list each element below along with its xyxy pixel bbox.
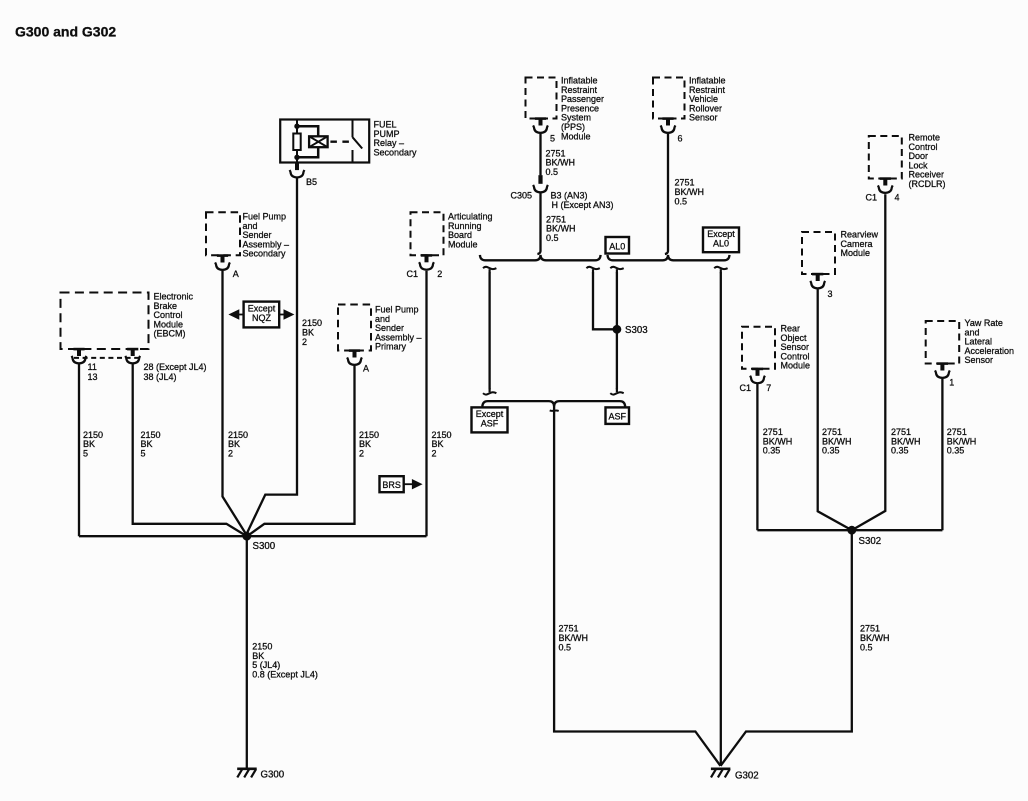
pin A terminal <box>349 349 360 352</box>
wire 2751 BK/WH 0.35 RCDLR to S302 <box>853 194 886 530</box>
wire 2751 BK/WH 0.5 lower <box>537 193 540 254</box>
svg-text:(RCDLR): (RCDLR) <box>909 179 946 189</box>
svg-text:5: 5 <box>550 134 555 144</box>
wire 2150 BK 2 relay to S300 <box>247 178 297 533</box>
svg-text:Module: Module <box>561 131 591 141</box>
svg-text:BK/WH: BK/WH <box>559 633 589 643</box>
svg-text:Module: Module <box>781 361 811 371</box>
pin C1-7 terminal <box>752 368 763 371</box>
relay resistor <box>296 120 298 134</box>
svg-text:0.5: 0.5 <box>860 643 873 653</box>
svg-text:38 (JL4): 38 (JL4) <box>144 372 177 382</box>
svg-text:2: 2 <box>432 448 437 458</box>
module Rear Object Sensor Control Module <box>742 327 775 369</box>
module Remote Control Door Lock Receiver RCDLR <box>869 136 902 179</box>
svg-text:Secondary: Secondary <box>374 147 418 157</box>
wire 2751 BK/WH 0.35 rear object sensor to S302 <box>756 384 758 530</box>
arrow right of Except NQZ <box>279 314 285 316</box>
inline connector C305 <box>538 175 542 184</box>
pin 6 terminal <box>662 117 673 120</box>
module Inflatable Restraint Vehicle Rollover Sensor <box>653 78 685 119</box>
svg-text:C1: C1 <box>407 269 419 279</box>
svg-text:2751: 2751 <box>860 623 880 633</box>
option box Except AL0 <box>703 228 739 253</box>
svg-text:BK/WH: BK/WH <box>860 633 890 643</box>
pin C1-2 terminal <box>421 254 432 257</box>
wire 2751 BK/WH 0.5 S302 to G302 <box>721 530 852 766</box>
pin C1-4 terminal <box>880 177 891 180</box>
svg-text:0.35: 0.35 <box>822 446 840 456</box>
wire 2150 BK 2 ARB to S300 <box>425 271 427 537</box>
svg-text:0.35: 0.35 <box>891 446 909 456</box>
wire 2150 BK to G300 <box>246 536 248 769</box>
svg-text:Module: Module <box>448 239 478 249</box>
svg-text:11: 11 <box>88 362 97 372</box>
svg-text:C1: C1 <box>866 193 878 203</box>
svg-text:3: 3 <box>828 289 833 299</box>
svg-text:0.35: 0.35 <box>947 446 965 456</box>
relay pin 85 terminal <box>295 163 299 171</box>
module Inflatable Restraint PPS <box>526 78 557 119</box>
svg-text:S303: S303 <box>625 325 648 336</box>
splice S303 <box>613 325 622 334</box>
pin 1 terminal <box>937 362 948 365</box>
ground G302 <box>711 767 731 770</box>
option box Except NQZ <box>244 302 280 328</box>
svg-text:2: 2 <box>437 269 442 279</box>
svg-text:6: 6 <box>678 134 683 144</box>
svg-text:7: 7 <box>766 383 771 393</box>
svg-text:G302: G302 <box>735 771 759 782</box>
option box AL0 <box>606 237 630 254</box>
wire 2150 BK 5 EBCM-11 to S300 <box>78 364 80 536</box>
svg-text:2751: 2751 <box>559 623 579 633</box>
svg-text:C1: C1 <box>740 383 752 393</box>
wire 2751 BK/WH 0.35 camera to S302 <box>818 289 851 530</box>
relay actuating dashed link <box>330 141 351 143</box>
svg-text:0.35: 0.35 <box>763 446 781 456</box>
EBCM pin 28/38 terminal <box>127 348 138 351</box>
wire 2150 BK 2 FP primary to S300 <box>248 366 354 536</box>
svg-text:NQZ: NQZ <box>252 313 272 323</box>
svg-text:S300: S300 <box>253 541 276 552</box>
wire option V3 <box>610 267 623 269</box>
svg-text:B5: B5 <box>306 177 317 187</box>
svg-text:BRS: BRS <box>382 480 401 490</box>
option box Except ASF <box>472 407 508 432</box>
module Fuel Pump and Sender Assembly - Primary <box>338 305 371 351</box>
svg-text:5: 5 <box>83 448 88 458</box>
wire 2751 BK/WH 0.35 yaw sensor to S302 <box>941 379 943 531</box>
svg-text:A: A <box>233 269 239 279</box>
option box BRS with arrow <box>380 476 404 492</box>
node S300 bus line <box>79 535 427 537</box>
EBCM pin 11/13 terminal <box>73 348 84 351</box>
svg-text:4: 4 <box>895 193 900 203</box>
svg-text:2: 2 <box>359 448 364 458</box>
svg-text:Sensor: Sensor <box>965 355 994 365</box>
svg-text:1: 1 <box>949 377 954 387</box>
pin 5 terminal <box>535 117 546 120</box>
svg-text:0.8 (Except JL4): 0.8 (Except JL4) <box>252 669 318 679</box>
svg-text:S302: S302 <box>859 536 882 547</box>
svg-text:2: 2 <box>228 448 233 458</box>
svg-text:AL0: AL0 <box>713 239 729 249</box>
relay junction dots <box>294 124 299 129</box>
relay switch contact <box>353 120 363 163</box>
option box ASF <box>606 407 630 424</box>
relay coil symbol box-X <box>309 136 328 147</box>
svg-text:13: 13 <box>88 372 98 382</box>
svg-text:0.5: 0.5 <box>675 196 688 206</box>
bracket upper left <box>480 255 601 260</box>
wire 2751 BK/WH 0.5 upper <box>539 134 541 176</box>
module Electronic Brake Control Module EBCM <box>61 293 149 350</box>
relay coil branch wire <box>297 126 318 157</box>
pin 3 terminal <box>812 273 823 276</box>
svg-text:Primary: Primary <box>375 342 406 352</box>
module Yaw Rate and Lateral Acceleration Sensor <box>926 321 960 364</box>
wire 2751 BK/WH 0.5 rollover <box>665 134 668 254</box>
splice S302 <box>847 526 856 535</box>
ground G300 <box>237 767 257 770</box>
svg-text:Module: Module <box>841 248 871 258</box>
wire 2150 BK 5 EBCM-28 to S300 <box>133 364 246 535</box>
relay FUEL PUMP Relay - Secondary box <box>280 120 369 163</box>
wire option V4 Except AL0 to G302 <box>714 267 727 269</box>
svg-text:G300 and G302: G300 and G302 <box>15 24 116 40</box>
svg-text:0.5: 0.5 <box>546 167 559 177</box>
svg-text:Sensor: Sensor <box>689 113 718 123</box>
pin A terminal <box>217 254 228 257</box>
svg-text:(EBCM): (EBCM) <box>154 329 186 339</box>
svg-text:0.5: 0.5 <box>559 643 572 653</box>
wire option V1 <box>483 267 496 269</box>
svg-text:ASF: ASF <box>608 412 626 422</box>
bracket upper right <box>608 255 730 260</box>
module Fuel Pump and Sender Assembly - Secondary <box>206 212 240 255</box>
node S302 bus line <box>757 529 942 531</box>
wire option V2 to S303 <box>586 267 599 269</box>
wire 2150 BK 2 FP secondary to S300 <box>223 271 247 535</box>
module Articulating Running Board Module <box>411 212 444 255</box>
svg-text:ASF: ASF <box>481 419 499 429</box>
svg-text:A: A <box>363 364 369 374</box>
wire 2751 BK/WH 0.5 ASF to G302 <box>550 409 559 412</box>
svg-text:0.5: 0.5 <box>546 233 559 243</box>
svg-text:Secondary: Secondary <box>243 249 287 259</box>
bracket lower <box>482 401 625 406</box>
arrow left of Except NQZ <box>238 314 244 316</box>
svg-text:C305: C305 <box>511 191 533 201</box>
dotted link between EBCM pins <box>74 357 140 359</box>
svg-text:2: 2 <box>302 337 307 347</box>
svg-text:28 (Except JL4): 28 (Except JL4) <box>144 362 207 372</box>
svg-text:G300: G300 <box>261 770 285 781</box>
module Rearview Camera Module <box>802 232 835 274</box>
svg-text:5: 5 <box>141 448 146 458</box>
svg-text:AL0: AL0 <box>609 241 625 251</box>
splice S300 <box>242 532 251 541</box>
svg-text:H (Except AN3): H (Except AN3) <box>552 200 614 210</box>
